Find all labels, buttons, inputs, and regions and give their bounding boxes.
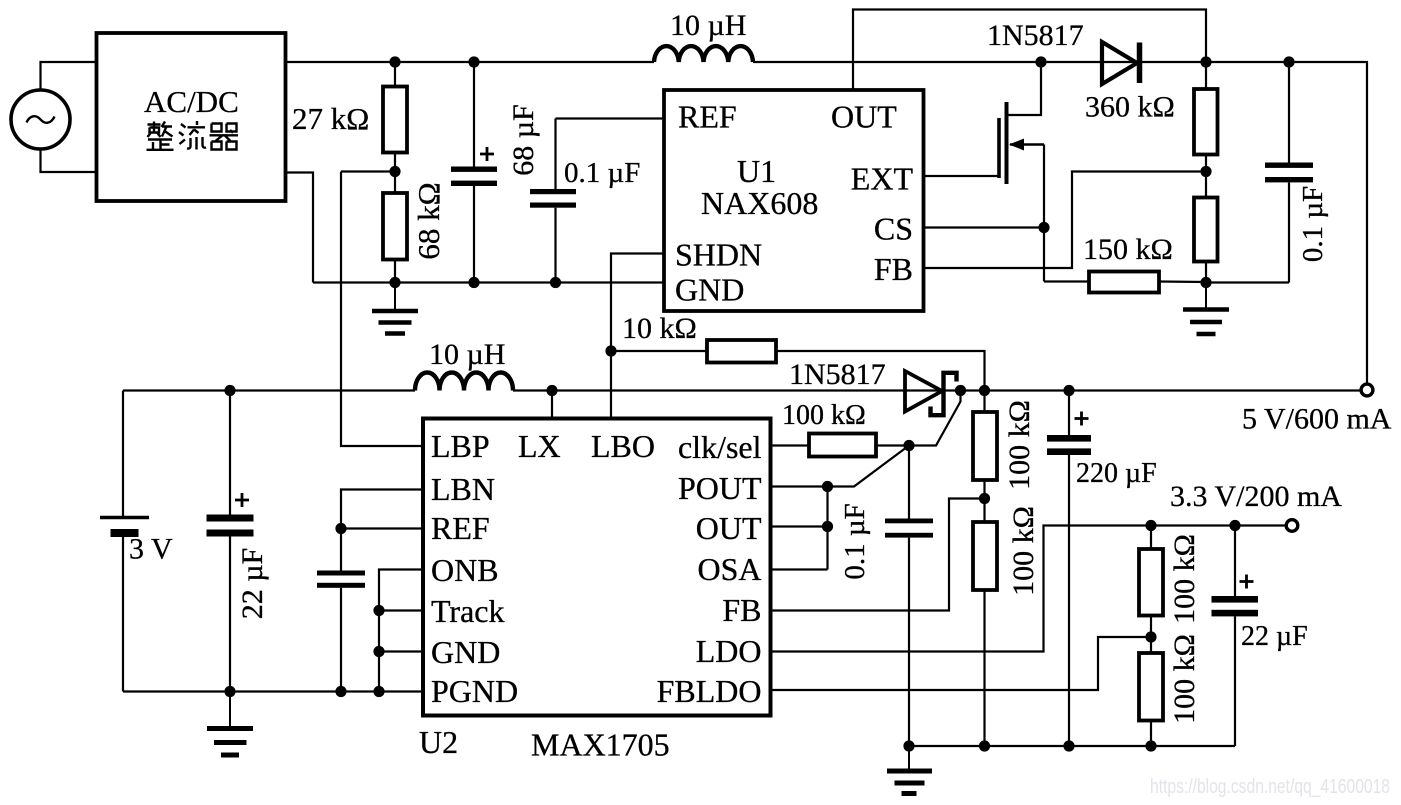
svg-text:AC/DC: AC/DC: [144, 84, 239, 119]
node dot output junction top: [1200, 56, 1211, 67]
node dot 68uF top: [468, 56, 479, 67]
wire 3V rail left: [123, 389, 415, 391]
AC source: [11, 90, 70, 149]
capacitor REF bypass U2: [317, 571, 365, 692]
node dot 27k top: [389, 56, 400, 67]
wire SHDN to LBO riser: [611, 254, 664, 419]
svg-text:OUT: OUT: [831, 99, 897, 135]
wire EXT to gate: [924, 175, 1000, 177]
svg-text:U1: U1: [737, 153, 776, 189]
svg-text:LDO: LDO: [696, 633, 762, 669]
5V output terminal: [1242, 384, 1392, 435]
svg-text:68 kΩ: 68 kΩ: [411, 182, 446, 259]
svg-text:CS: CS: [874, 211, 913, 247]
capacitor 0.1uF mid: [839, 446, 933, 747]
svg-text:3.3 V/200 mA: 3.3 V/200 mA: [1170, 480, 1342, 513]
wire ONB chain: [379, 570, 423, 692]
svg-text:LX: LX: [518, 428, 561, 464]
resistor 100 kOhm v3: [973, 391, 1036, 523]
svg-text:100 kΩ: 100 kΩ: [1168, 634, 1201, 724]
wire AC source top to rectifier: [41, 62, 97, 91]
ground symbol A: [372, 283, 418, 334]
node dot ONB chain bottom: [373, 686, 384, 697]
capacitor 220uF: [1047, 391, 1157, 747]
resistor 100 kOhm v6: [1139, 634, 1201, 746]
wire GND(U2): [373, 646, 423, 657]
svg-text:27 kΩ: 27 kΩ: [292, 101, 369, 136]
capacitor 22uF right: [1212, 526, 1308, 747]
resistor 360 kOhm: [1085, 62, 1218, 198]
svg-text:0.1 µF: 0.1 µF: [564, 157, 640, 189]
wire ground rail under divider: [313, 281, 664, 283]
capacitor 0.1uF right: [1265, 62, 1329, 283]
node dot MOSFET drain on rail: [1035, 56, 1046, 67]
diode D2 1N5817 Schottky: [789, 358, 957, 415]
transistor Q1 (MOSFET): [999, 102, 1044, 282]
wire CS to source line: [924, 222, 1050, 233]
svg-text:68 µF: 68 µF: [507, 104, 540, 175]
ground symbol C: [207, 692, 253, 756]
svg-text:10 µH: 10 µH: [670, 9, 746, 42]
node dot 22uF bottom: [224, 686, 235, 697]
node dot diode cathode: [955, 385, 966, 396]
svg-text:ONB: ONB: [431, 552, 499, 588]
wire top rail right of inductor L1: [753, 62, 1367, 384]
svg-text:22 µF: 22 µF: [1241, 621, 1308, 652]
svg-text:OSA: OSA: [697, 551, 761, 587]
svg-text:100 kΩ: 100 kΩ: [782, 400, 866, 431]
svg-text:LBN: LBN: [431, 471, 495, 507]
svg-text:REF: REF: [431, 510, 490, 546]
resistor 100 kOhm v4: [973, 506, 1040, 746]
svg-text:1N5817: 1N5817: [987, 19, 1084, 52]
svg-text:clk/sel: clk/sel: [678, 429, 762, 465]
svg-text:SHDN: SHDN: [675, 237, 762, 273]
node dot divider junction: [389, 166, 400, 177]
wire Track: [373, 605, 423, 616]
wire POUT-OUT-OSA tie: [771, 487, 834, 570]
capacitor 22uF left: [207, 391, 270, 692]
svg-text:LBP: LBP: [431, 428, 490, 464]
svg-text:0.1 µF: 0.1 µF: [1297, 186, 1329, 262]
wire bottom-left ground rail: [123, 690, 423, 692]
wire FBLDO: [771, 637, 1152, 690]
watermark: [1150, 776, 1390, 798]
svg-text:POUT: POUT: [678, 470, 762, 506]
wire LBP riser: [341, 172, 423, 447]
svg-text:LBO: LBO: [591, 428, 655, 464]
svg-text:GND: GND: [675, 272, 744, 308]
svg-text:22 µF: 22 µF: [236, 548, 269, 619]
svg-text:1N5817: 1N5817: [789, 358, 886, 391]
svg-text:0.1 µF: 0.1 µF: [839, 503, 871, 579]
ground symbol D: [887, 746, 932, 794]
svg-text:10 µH: 10 µH: [429, 338, 505, 371]
resistor 100 kOhm clk/sel: [771, 400, 910, 457]
ground symbol B: [1183, 283, 1229, 335]
wire drain stub: [1007, 62, 1042, 115]
node dot 0.1uF bottom: [550, 277, 561, 288]
wire REF(U2): [335, 523, 423, 534]
AC/DC rectifier block: [97, 33, 286, 201]
node dot gnd rail x909: [903, 740, 914, 751]
inductor L2 10uH: [415, 338, 513, 391]
capacitor 0.1uF (REF bypass): [530, 119, 640, 283]
svg-text:5 V/600 mA: 5 V/600 mA: [1242, 403, 1392, 436]
node dot 22uF right top: [1229, 520, 1240, 531]
wire LDO to 3.3V rail: [771, 526, 1287, 652]
capacitor 68uF: [451, 62, 540, 283]
wire 150k junction to 0.1uF: [1206, 281, 1289, 283]
svg-text:3 V: 3 V: [129, 533, 173, 566]
svg-text:100 kΩ: 100 kΩ: [1168, 534, 1201, 624]
battery 3V: [100, 391, 173, 692]
wire AC source bottom to rectifier: [41, 149, 97, 173]
resistor 68 kOhm: [383, 172, 446, 283]
diode D1 1N5817: [987, 19, 1140, 84]
wire LX stub: [551, 391, 553, 419]
svg-text:https://blog.csdn.net/qq_41600: https://blog.csdn.net/qq_41600018: [1150, 776, 1390, 798]
wire rectifier lower output: [286, 173, 313, 283]
node dot 360k bottom junction: [1200, 166, 1211, 177]
node dot 0.1uF top: [1283, 56, 1294, 67]
3.3V output terminal: [1170, 480, 1342, 531]
wire FB net: [924, 172, 1207, 269]
svg-text:MAX1705: MAX1705: [531, 727, 670, 763]
wire REF to cap: [556, 117, 665, 119]
node dot clk/sel junction: [903, 440, 914, 451]
node dot gnd rail x1151: [1145, 740, 1156, 751]
svg-text:PGND: PGND: [431, 673, 518, 709]
resistor 27 kOhm: [292, 62, 407, 172]
svg-text:U2: U2: [419, 724, 458, 760]
node dot REF cap bottom rail: [335, 686, 346, 697]
svg-text:GND: GND: [431, 634, 500, 670]
node dot 10k riser on rail: [979, 385, 990, 396]
node dot gnd rail x984: [979, 740, 990, 751]
svg-text:360 kΩ: 360 kΩ: [1085, 91, 1175, 124]
svg-text:FB: FB: [874, 251, 913, 287]
resistor 100 kOhm v5: [1139, 526, 1201, 654]
svg-text:REF: REF: [678, 99, 737, 135]
node dot 22uF top: [224, 385, 235, 396]
wire diagonal clk/sel to diode cathode: [909, 391, 961, 446]
node dot v3-v4 junction: [979, 493, 990, 504]
svg-text:150 kΩ: 150 kΩ: [1083, 233, 1173, 266]
inductor L1 10uH: [654, 9, 753, 62]
resistor 150 kOhm: [1044, 233, 1206, 293]
wire divider junction to LBP riser: [341, 170, 395, 172]
node dot 10k junction: [605, 345, 616, 356]
svg-text:EXT: EXT: [851, 161, 914, 197]
node dot 100k v5 top: [1145, 520, 1156, 531]
wire 3V rail right to 5V output: [513, 389, 1362, 391]
node dot 220uF top: [1063, 385, 1074, 396]
svg-text:FBLDO: FBLDO: [657, 673, 762, 709]
svg-text:Track: Track: [431, 593, 504, 629]
node dot 68k bottom: [389, 277, 400, 288]
svg-text:NAX608: NAX608: [701, 185, 818, 221]
wire diagonal POUT to clk/sel: [828, 446, 910, 487]
svg-text:100 kΩ: 100 kΩ: [1003, 400, 1036, 490]
wire bottom ground rail: [909, 745, 1235, 747]
node dot 150k right junction: [1200, 277, 1211, 288]
wire top rail left of inductor L1: [286, 61, 654, 63]
node dot 68uF bottom: [468, 277, 479, 288]
wire POUT: [771, 481, 834, 492]
resistor below 360k: [1194, 198, 1218, 283]
resistor 10 kOhm: [611, 312, 985, 391]
node dot gnd rail x1069: [1063, 740, 1074, 751]
wire LBN to riser: [341, 490, 423, 571]
svg-text:100 kΩ: 100 kΩ: [1007, 506, 1040, 596]
svg-text:OUT: OUT: [696, 510, 762, 546]
op-amp U1 NAX608 box: [664, 90, 924, 311]
node dot v5-v6 junction: [1145, 631, 1156, 642]
svg-text:220 µF: 220 µF: [1076, 458, 1157, 489]
wire OUT riser to top link: [853, 10, 1206, 91]
wire FB(U2): [771, 499, 985, 611]
node dot LX junction: [546, 385, 557, 396]
svg-text:10 kΩ: 10 kΩ: [622, 312, 697, 345]
svg-text:FB: FB: [722, 592, 761, 628]
label 整流器 (drawn strokes): [147, 121, 239, 150]
IC U2 MAX1705 box: [419, 419, 771, 763]
